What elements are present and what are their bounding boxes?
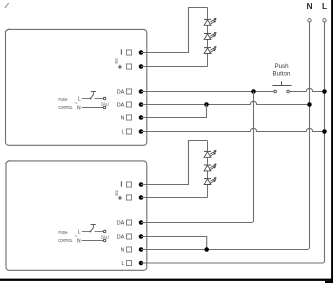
svg-text:L: L [122, 129, 125, 135]
U1 terminal - (row -) [120, 49, 122, 54]
wire U1 N row join up to DA2 row [141, 105, 207, 118]
svg-text:PUSH-: PUSH- [59, 97, 69, 102]
U2 DALI output circles [103, 230, 106, 233]
LED string 2 rail [207, 141, 209, 198]
svg-text:SEC: SEC [115, 190, 119, 196]
junction U2 N / DA2 join [204, 247, 209, 252]
wire LED string 2 bottom to U2 + [141, 197, 208, 199]
LED D3 [204, 47, 211, 49]
svg-text:Push: Push [274, 63, 289, 70]
LED D2 [204, 33, 211, 35]
U2 internal push switch [90, 231, 92, 233]
N supply entry circle [308, 19, 311, 22]
black bottom page border [0, 279, 333, 281]
wire U1 - to LED string 1 top [141, 8, 208, 53]
LED D5 [204, 164, 211, 166]
svg-text:L: L [122, 261, 125, 267]
L supply entry circle [323, 19, 326, 22]
wire U2 DA2 row join down to N row [141, 237, 207, 250]
svg-text:SEC: SEC [114, 57, 118, 63]
svg-text:PUSH-: PUSH- [59, 230, 69, 235]
wire U2 - to LED string 2 top [141, 141, 208, 185]
svg-text:CONTROL: CONTROL [58, 238, 72, 243]
black right page border [331, 0, 333, 283]
LED D1 [204, 18, 211, 20]
junction U1 DA2 / N bus [307, 102, 312, 107]
svg-text:N: N [121, 247, 125, 253]
driver U1 outline [6, 29, 147, 145]
U2 terminal + (row +) [118, 197, 122, 199]
push button PB1 [274, 90, 277, 93]
svg-text:DA: DA [117, 234, 125, 240]
L bus vertical [323, 22, 325, 263]
svg-text:N: N [306, 1, 312, 11]
driver U2 outline [6, 161, 147, 270]
svg-text:DALI: DALI [101, 235, 109, 240]
svg-text:DA: DA [117, 220, 125, 226]
U1 DALI output circles [103, 97, 106, 100]
wire U1 DA2 row to N bus (hop over daisy vertical) [141, 101, 310, 104]
U1 corner chamfer tail [5, 29, 10, 33]
LED D6 [204, 178, 211, 180]
svg-text:N: N [77, 238, 81, 244]
svg-text:L: L [78, 229, 81, 235]
LED string 1 rail [207, 8, 209, 67]
junction U1 DA2 / N-join [204, 102, 209, 107]
U2 corner chamfer tail [5, 160, 10, 164]
svg-text:DA: DA [117, 102, 125, 108]
U1 terminal + (row +) [118, 66, 122, 68]
svg-text:N: N [77, 105, 81, 111]
wire U2 N row to N bus [141, 249, 308, 251]
svg-text:L: L [78, 96, 81, 102]
DALI daisy-chain vertical DA1->DA1 [141, 92, 254, 223]
svg-text:DALI: DALI [101, 102, 109, 107]
svg-text:CONTROL: CONTROL [58, 105, 72, 110]
wire push button to L bus (hop over N bus) [289, 88, 324, 91]
U1 internal push switch [90, 98, 92, 100]
LED D4 [204, 150, 211, 152]
svg-text:DA: DA [117, 89, 125, 95]
svg-text:L: L [322, 1, 327, 11]
svg-text:N: N [121, 115, 125, 121]
N bus vertical [308, 22, 310, 249]
wire U1 L row to L bus (hops over daisy vertical and N bus) [141, 128, 325, 131]
U2 SEC label [115, 190, 119, 196]
junction U1 L / L bus [322, 129, 327, 134]
U2 terminal - (row -) [120, 181, 122, 186]
wire U2 L row to L bus [141, 262, 323, 264]
wire U1 DA1 row to push button [141, 91, 274, 93]
svg-text:Button: Button [273, 70, 291, 77]
junction push button / L bus [322, 89, 327, 94]
U1 SEC label [114, 57, 118, 63]
junction U1 DA1 / daisy vertical [251, 89, 256, 94]
stray corner mark top-left [5, 3, 9, 8]
wire LED string 1 bottom to U1 + [141, 66, 208, 68]
